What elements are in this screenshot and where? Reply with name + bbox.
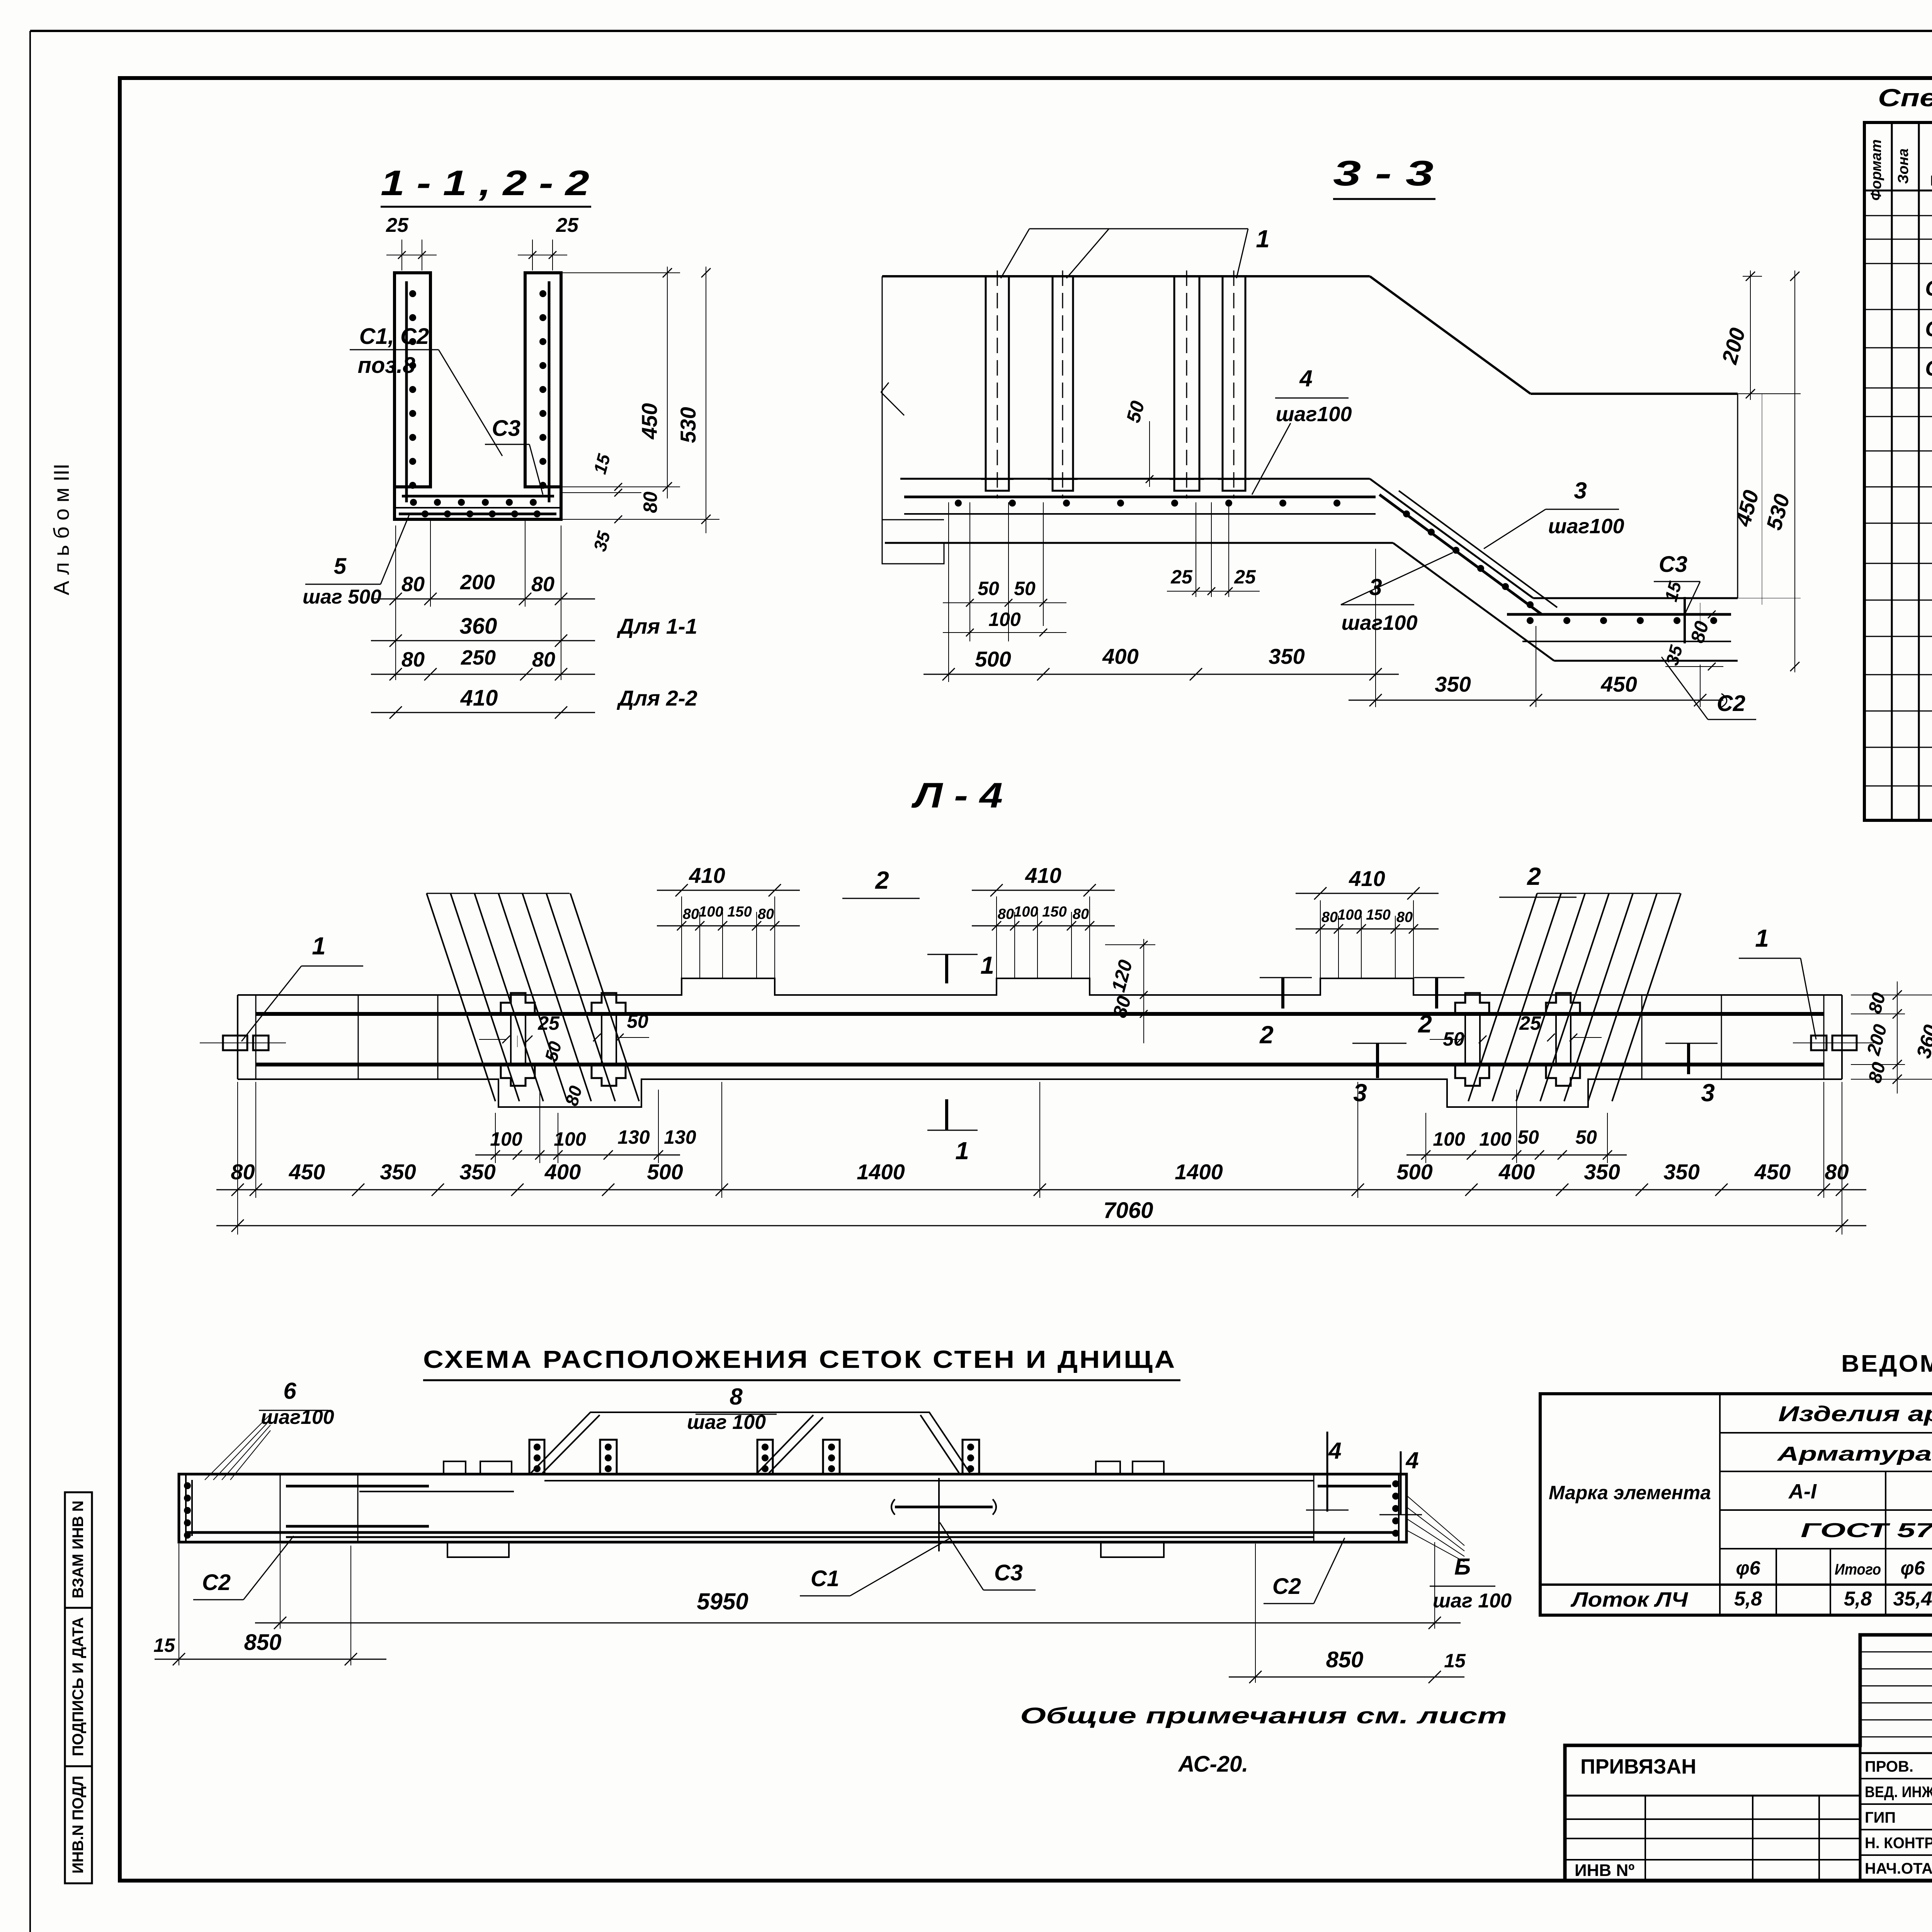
plan right end wall [1841, 995, 1843, 1079]
svg-text:7060: 7060 [1103, 1198, 1153, 1223]
section mark 3 left [1376, 1043, 1379, 1078]
section mark 3 right [1687, 1043, 1690, 1074]
svg-text:шаг100: шаг100 [1276, 403, 1352, 426]
svg-text:Итого: Итого [1835, 1561, 1881, 1578]
plan key block right 1 [1455, 993, 1489, 1014]
schema inner horizontal rebar C1 bottom [286, 1525, 429, 1528]
svg-text:80: 80 [231, 1160, 255, 1184]
section 1-1 wall rebar right with dots [548, 281, 551, 502]
svg-text:50: 50 [1517, 1126, 1539, 1148]
svg-text:2: 2 [1527, 862, 1541, 890]
dimension 410 for 2-2 [371, 712, 595, 713]
svg-text:шаг100: шаг100 [1548, 515, 1624, 538]
svg-text:80: 80 [1396, 909, 1413, 925]
svg-text:5950: 5950 [697, 1588, 748, 1614]
dimension 25 left wall top [401, 240, 402, 270]
schema mesh block 2 [600, 1440, 617, 1474]
svg-text:80: 80 [532, 648, 555, 671]
svg-text:350: 350 [1435, 672, 1471, 696]
schema right end mesh dots [1392, 1480, 1399, 1487]
plan key block left 2 [592, 993, 626, 1014]
svg-text:15: 15 [153, 1634, 175, 1656]
svg-text:АС-20.: АС-20. [1178, 1752, 1248, 1777]
svg-text:Для 1-1: Для 1-1 [617, 614, 697, 638]
svg-text:С1: С1 [1925, 276, 1932, 300]
schema mid top inner line [544, 1480, 1314, 1481]
section 3-3 left wall edge [882, 276, 883, 323]
dim 120 80 rotated [1105, 944, 1155, 945]
schema mesh block 4 [823, 1440, 840, 1474]
svg-text:Изделия арматурные: Изделия арматурные [1778, 1401, 1932, 1426]
section 3-3 small dims 15 80 35 right [1700, 603, 1701, 626]
svg-text:50: 50 [1014, 578, 1036, 599]
svg-text:3: 3 [1353, 1079, 1367, 1107]
schema section marks 4 [1327, 1432, 1328, 1512]
svg-text:поз.8: поз.8 [358, 353, 416, 378]
svg-text:450: 450 [1754, 1160, 1791, 1184]
svg-text:Л - 4: Л - 4 [911, 776, 1003, 815]
svg-text:350: 350 [1584, 1160, 1620, 1184]
plan left end wall [237, 995, 238, 1079]
svg-text:500: 500 [1396, 1160, 1432, 1184]
svg-text:С1: С1 [811, 1566, 839, 1591]
svg-text:А л ь б о м III: А л ь б о м III [49, 464, 73, 595]
plan key block left 1 [501, 993, 535, 1014]
dimension chain 80 200 80 bottom [395, 526, 396, 607]
schema long bottom rebar line [286, 1536, 1314, 1538]
plan joint line d [1721, 995, 1722, 1079]
dimension chain 80 250 80 for 2-2 [371, 674, 595, 675]
section 1-1 bottom slab [395, 487, 561, 519]
svg-text:850: 850 [244, 1630, 282, 1655]
svg-text:80: 80 [998, 906, 1014, 922]
svg-text:Марка элемента: Марка элемента [1549, 1482, 1711, 1503]
svg-text:Общие примечания см. лист: Общие примечания см. лист [1020, 1703, 1507, 1728]
sleeve pipe 1b [1053, 276, 1073, 491]
schema top bumps left [444, 1461, 466, 1474]
svg-text:С3: С3 [1925, 356, 1932, 380]
svg-text:ГИП: ГИП [1865, 1809, 1896, 1826]
svg-text:450: 450 [1600, 672, 1637, 696]
section 3-3 floor bottom line [885, 542, 1393, 544]
section mark 2 mid [1435, 978, 1438, 1009]
svg-text:100: 100 [490, 1128, 522, 1150]
signature table grid [1860, 1635, 1932, 1881]
svg-text:80: 80 [401, 573, 425, 596]
plan joint line b [437, 995, 439, 1079]
section 3-3 dim 50 top [1149, 421, 1150, 487]
svg-text:φ6: φ6 [1901, 1557, 1925, 1579]
left stamp column boxes [65, 1492, 92, 1883]
mesh C3 bar in right slab [1684, 597, 1686, 643]
title block left grid [1645, 1796, 1646, 1881]
svg-text:410: 410 [460, 685, 498, 711]
svg-text:1 - 1 , 2 - 2: 1 - 1 , 2 - 2 [381, 163, 589, 203]
schema mesh trapezoid 8 [531, 1412, 970, 1473]
svg-text:2: 2 [1259, 1021, 1274, 1049]
svg-text:φ6: φ6 [1736, 1557, 1761, 1579]
section 3-3 right slab bottom [1554, 660, 1738, 662]
svg-text:1: 1 [1256, 225, 1270, 253]
svg-text:450: 450 [289, 1160, 325, 1184]
sleeve pipe 1c [1174, 276, 1199, 491]
svg-text:Для 2-2: Для 2-2 [617, 686, 697, 710]
plan joint line c [1641, 995, 1643, 1079]
svg-text:130: 130 [664, 1126, 696, 1148]
svg-text:100: 100 [1014, 904, 1038, 920]
svg-text:410: 410 [1025, 863, 1061, 888]
plan inner wall line top [256, 1012, 1824, 1016]
section 3-3 vertical dims right 200 450 530 [1743, 276, 1762, 277]
svg-text:3: 3 [1701, 1079, 1715, 1107]
svg-text:400: 400 [1102, 644, 1138, 668]
sleeve pipe 1d [1223, 276, 1245, 491]
svg-text:450: 450 [637, 403, 662, 439]
plan bottom dim chain [216, 1189, 1866, 1190]
svg-text:4: 4 [1405, 1447, 1418, 1473]
title block privyazan row [1565, 1795, 1860, 1797]
hatch block 2 right [1468, 893, 1537, 1101]
svg-text:500: 500 [975, 647, 1011, 671]
svg-text:1400: 1400 [1175, 1160, 1223, 1184]
svg-text:ПРИВЯЗАН: ПРИВЯЗАН [1580, 1755, 1696, 1778]
plan bottom edge with notches [238, 1079, 1842, 1107]
section 3-3 chain 500 400 350 [948, 502, 949, 682]
svg-text:25: 25 [1234, 566, 1256, 588]
svg-text:С3: С3 [994, 1560, 1023, 1585]
schema top bumps middle [1096, 1461, 1120, 1474]
section 1-1 left wall [395, 273, 430, 487]
plan overall dim 7060 [216, 1225, 1866, 1226]
svg-text:80: 80 [401, 648, 425, 671]
svg-text:СХЕМА РАСПОЛОЖЕНИЯ СЕТОК СТ: СХЕМА РАСПОЛОЖЕНИЯ СЕТОК СТЕН И ДНИЩА [423, 1345, 1177, 1373]
plan key necks [510, 1014, 512, 1065]
svg-text:5: 5 [334, 554, 347, 579]
dim 410 group 3 [1320, 900, 1321, 978]
svg-text:1: 1 [312, 932, 326, 960]
svg-text:410: 410 [689, 863, 725, 888]
svg-text:ПОДПИСЬ И ДАТА: ПОДПИСЬ И ДАТА [70, 1617, 87, 1756]
svg-text:ВЕД. ИНЖ: ВЕД. ИНЖ [1865, 1784, 1932, 1801]
section 1-1 bottom rebar C3 with dots [402, 495, 554, 498]
svg-text:шаг 100: шаг 100 [1433, 1590, 1512, 1612]
svg-text:шаг 500: шаг 500 [303, 586, 381, 608]
svg-text:200: 200 [460, 571, 495, 594]
svg-text:3: 3 [1574, 478, 1587, 503]
svg-text:50: 50 [978, 578, 999, 599]
svg-text:3 - 3: 3 - 3 [1333, 154, 1434, 193]
svg-text:500: 500 [647, 1160, 683, 1184]
dimension 530 vertical [561, 519, 719, 520]
svg-text:35,4: 35,4 [1893, 1588, 1932, 1610]
svg-text:А-I: А-I [1788, 1480, 1817, 1503]
section mark 2 left top [1281, 978, 1284, 1009]
svg-text:ВЕДОМОСТЬ РАСХОДА СТАЛИ НА: ВЕДОМОСТЬ РАСХОДА СТАЛИ НА ЭЛЕМЕНТ, КГ [1841, 1350, 1932, 1377]
svg-text:80: 80 [1825, 1160, 1849, 1184]
section mark 1 bottom [945, 1099, 948, 1130]
svg-text:ВЗАМ ИНВ N: ВЗАМ ИНВ N [70, 1500, 87, 1598]
svg-text:100: 100 [1337, 907, 1362, 923]
dimension 25 right wall top [532, 240, 533, 270]
svg-text:410: 410 [1349, 866, 1385, 891]
section 3-3 left tick mark [881, 392, 904, 415]
plan key block right 2 [1546, 993, 1580, 1014]
section 1-1 bottom rebar pos5 with dots [399, 513, 556, 515]
svg-text:1400: 1400 [857, 1160, 905, 1184]
svg-text:130: 130 [617, 1126, 650, 1148]
schema mesh seam diagonals [757, 1415, 813, 1473]
svg-text:80: 80 [1321, 909, 1338, 925]
svg-text:2: 2 [875, 866, 889, 894]
svg-text:5,8: 5,8 [1844, 1588, 1872, 1610]
svg-text:ИНВ Nº: ИНВ Nº [1575, 1861, 1634, 1880]
svg-text:350: 350 [1269, 644, 1304, 668]
svg-text:ГОСТ 5781-82: ГОСТ 5781-82 [1801, 1519, 1932, 1542]
svg-text:530: 530 [676, 407, 700, 443]
schema band outline [179, 1474, 1406, 1542]
svg-text:Н. КОНТР: Н. КОНТР [1865, 1835, 1932, 1852]
schema dim 850 left [179, 1544, 179, 1665]
svg-text:С1, С2: С1, С2 [359, 324, 429, 349]
svg-text:25: 25 [537, 1012, 560, 1034]
embedded sleeve left end [223, 1036, 247, 1050]
svg-text:1: 1 [1755, 924, 1769, 952]
svg-text:250: 250 [461, 646, 496, 669]
schema mesh block 5 [963, 1440, 979, 1474]
svg-text:150: 150 [727, 904, 752, 920]
svg-text:Зона: Зона [1895, 148, 1912, 184]
svg-text:80: 80 [758, 906, 774, 922]
svg-text:шаг100: шаг100 [261, 1406, 334, 1429]
svg-text:350: 350 [459, 1160, 495, 1184]
svg-text:850: 850 [1326, 1647, 1364, 1672]
section 3-3 left end step [882, 323, 944, 564]
section 3-3 step diagonal rebar [1379, 495, 1542, 614]
svg-text:25: 25 [386, 214, 409, 236]
svg-text:150: 150 [1366, 907, 1390, 923]
schema dim 850 right [1255, 1544, 1256, 1683]
svg-text:100: 100 [554, 1128, 586, 1150]
schema bottom notches middle [1101, 1542, 1164, 1557]
svg-text:6: 6 [283, 1378, 296, 1404]
svg-text:400: 400 [544, 1160, 581, 1184]
schema mesh block 3 [757, 1440, 773, 1474]
section mark 1 top [945, 954, 948, 983]
section 3-3 right slab top [1533, 597, 1738, 599]
svg-text:350: 350 [380, 1160, 416, 1184]
section 3-3 top slab edge [882, 275, 1370, 277]
svg-text:С2: С2 [1272, 1574, 1301, 1599]
svg-text:С2: С2 [1925, 316, 1932, 341]
svg-text:4: 4 [1328, 1438, 1341, 1464]
steel table grid [1540, 1394, 1932, 1615]
plan right vertical dims 80 200 80 360 [1851, 995, 1932, 995]
plan sub dims 100 100 130 130 [495, 1113, 496, 1163]
plan sub dims 100 100 50 50 right [1425, 1113, 1426, 1163]
svg-text:шаг 100: шаг 100 [687, 1411, 766, 1434]
section 1-1 right wall [525, 273, 561, 487]
dimension 15 80 35 right [561, 492, 641, 493]
dim 410 group 1 [681, 896, 682, 978]
svg-text:25: 25 [1170, 566, 1193, 588]
section 3-3 chain 350 450 lower [1375, 682, 1376, 707]
section 3-3 floor rebar with dots [904, 496, 1376, 498]
svg-text:25: 25 [556, 214, 579, 236]
svg-text:5,8: 5,8 [1734, 1588, 1762, 1610]
dim 410 group 2 [996, 896, 997, 978]
plan joint line a [358, 995, 359, 1079]
svg-text:С2: С2 [202, 1570, 231, 1595]
dimension 450 vertical [561, 272, 680, 273]
svg-text:400: 400 [1498, 1160, 1535, 1184]
schema bottom notches left [447, 1542, 509, 1557]
svg-text:шаг100: шаг100 [1342, 611, 1418, 634]
svg-text:Спецификация к монолитному: Спецификация к монолитному лотку ЛЧ. [1878, 84, 1932, 112]
spec table grid [1864, 122, 1932, 820]
section 1-1 wall rebar left with dots [405, 281, 408, 502]
svg-text:Поз.: Поз. [1928, 152, 1932, 188]
schema center section symbol [895, 1506, 993, 1509]
svg-text:25: 25 [1519, 1012, 1541, 1034]
schema left end mesh C2 [185, 1474, 187, 1542]
title block outline [1565, 1635, 1932, 1881]
plan top edge with bumps [238, 978, 1842, 995]
section 3-3 floor upper line [900, 478, 1370, 480]
schema dim 5950 [280, 1544, 281, 1629]
svg-text:Лоток ЛЧ: Лоток ЛЧ [1570, 1588, 1689, 1611]
svg-text:100: 100 [699, 904, 723, 920]
svg-text:Арматура класса: Арматура класса [1776, 1443, 1932, 1465]
svg-text:150: 150 [1042, 904, 1066, 920]
schema left end inner joint [280, 1474, 281, 1542]
section 3-3 right wall corner [1737, 394, 1738, 598]
svg-text:80: 80 [1073, 906, 1089, 922]
svg-text:С3: С3 [1659, 552, 1687, 577]
svg-text:4: 4 [1299, 366, 1312, 391]
svg-text:360: 360 [460, 614, 497, 639]
hatch block 2 left [427, 893, 495, 1101]
svg-text:80: 80 [639, 492, 661, 513]
svg-text:80: 80 [683, 906, 699, 922]
schema mesh block 1 [529, 1440, 544, 1474]
svg-text:100: 100 [1433, 1128, 1465, 1150]
svg-text:8: 8 [730, 1384, 743, 1410]
svg-text:80: 80 [531, 573, 554, 596]
svg-text:НАЧ.ОТА: НАЧ.ОТА [1865, 1860, 1932, 1877]
svg-text:1: 1 [955, 1137, 969, 1165]
svg-text:ИНВ.N ПОДЛ: ИНВ.N ПОДЛ [70, 1776, 87, 1874]
svg-text:С2: С2 [1717, 691, 1745, 716]
svg-text:15: 15 [1444, 1650, 1466, 1672]
section 3-3 dims 25 25 [1196, 502, 1196, 597]
embedded sleeve right end [1811, 1036, 1827, 1050]
sleeve pipe 1a [986, 276, 1009, 491]
svg-text:ПРОВ.: ПРОВ. [1865, 1758, 1913, 1775]
svg-text:100: 100 [1479, 1128, 1512, 1150]
svg-text:50: 50 [1575, 1126, 1597, 1148]
plan inner wall line bottom [256, 1063, 1824, 1066]
svg-text:100: 100 [988, 609, 1021, 630]
svg-text:2: 2 [1418, 1010, 1432, 1038]
svg-text:50: 50 [627, 1010, 648, 1032]
dimension 360 for 1-1 [371, 640, 595, 641]
schema inner horizontal rebar C1 top [286, 1485, 429, 1488]
svg-text:1: 1 [980, 951, 994, 979]
svg-text:С3: С3 [492, 416, 520, 441]
schema right end joints [1313, 1474, 1315, 1542]
section 3-3 dims 50 50 100 left [969, 502, 970, 641]
svg-text:Формат: Формат [1868, 139, 1884, 201]
svg-text:350: 350 [1663, 1160, 1699, 1184]
section 3-3 right slab rebar [1507, 613, 1731, 616]
